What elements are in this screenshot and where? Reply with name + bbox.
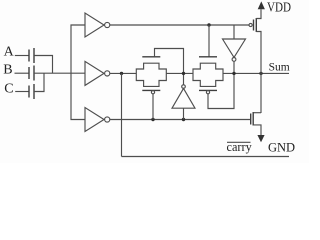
transistor TG1 bottom gate bar — [142, 89, 160, 91]
op-amp U2 middle inverter — [85, 61, 110, 85]
node dot J1 — [207, 23, 210, 26]
transistor Q2 NMOS channel — [252, 112, 254, 126]
svg-text:Sum: Sum — [269, 62, 290, 74]
wire Q2 source to GND — [253, 125, 261, 135]
transistor TG2 bottom gate bar — [199, 89, 217, 91]
op-amp U4 downward inverter — [223, 39, 246, 61]
node dot J5 — [182, 72, 185, 75]
node dot J7 — [259, 72, 262, 75]
power VDD symbol — [258, 1, 265, 9]
capacitor CB — [29, 66, 34, 81]
node dot J4 — [182, 118, 185, 121]
wire U3 output to NMOS gate — [110, 119, 251, 121]
wire U1 output (carry-bar internal line) — [110, 24, 249, 26]
svg-text:B: B — [3, 62, 12, 77]
ground GND symbol — [257, 135, 264, 142]
transistor TG2 top gate bar — [199, 56, 217, 58]
capacitor CA — [29, 48, 34, 63]
wire B to inverter input (common node V) — [34, 72, 85, 74]
wire B lead — [15, 72, 30, 74]
wire C lead — [15, 91, 29, 93]
transistor TG1 top gate bar — [142, 56, 160, 58]
wire Q1 drain to VDD — [256, 9, 261, 18]
wire C stub to bus — [34, 73, 44, 91]
wire TG1 bottom gate to U3 output — [152, 94, 154, 120]
wire J1 to TG2 top gate — [208, 25, 210, 57]
wire carry output line — [122, 156, 290, 158]
wire Q2 drain — [253, 112, 261, 114]
svg-text:A: A — [4, 45, 15, 60]
wire Sum line — [223, 72, 289, 74]
wire A lead — [15, 55, 29, 57]
transistor Q1 PMOS gate bar — [253, 20, 255, 31]
svg-text:GND: GND — [268, 140, 295, 154]
node dot J2 — [120, 72, 123, 75]
transistor TG1 transmission gate body — [136, 63, 166, 86]
wire Q1 source to Sum rail — [256, 32, 261, 114]
op-amp U1 top inverter — [85, 13, 110, 37]
node dot J3 — [151, 118, 154, 121]
wire left vertical (node V to top and bottom inverters) — [71, 25, 85, 120]
capacitor CC — [29, 84, 34, 99]
wire U2 output to TG1 — [110, 72, 137, 74]
wire TG1 to TG2 channel — [166, 72, 193, 74]
node dot J6 — [232, 72, 235, 75]
wire U5 input from U3 output line — [183, 108, 185, 119]
wire J2 down to carry line — [121, 73, 123, 156]
transistor Q2 NMOS gate bar — [250, 114, 252, 125]
transistor TG2 transmission gate body — [193, 63, 223, 86]
wire branch to U4 input — [233, 25, 235, 39]
node TG1 PMOS gate bubble — [151, 91, 154, 94]
transistor Q1 PMOS channel — [255, 18, 257, 32]
op-amp U3 bottom inverter — [85, 108, 110, 132]
svg-text:C: C — [4, 82, 13, 97]
wire TG2 bottom gate to Sum node — [208, 61, 234, 108]
wire A stub to bus — [34, 56, 53, 74]
node carry label — [227, 140, 253, 154]
node TG2 PMOS gate bubble — [206, 91, 209, 94]
transistor Q1 PMOS gate bubble — [249, 23, 252, 26]
wire TG1 top gate to node X — [155, 49, 184, 85]
op-amp U5 upward inverter — [172, 85, 195, 108]
svg-text:VDD: VDD — [267, 0, 291, 15]
